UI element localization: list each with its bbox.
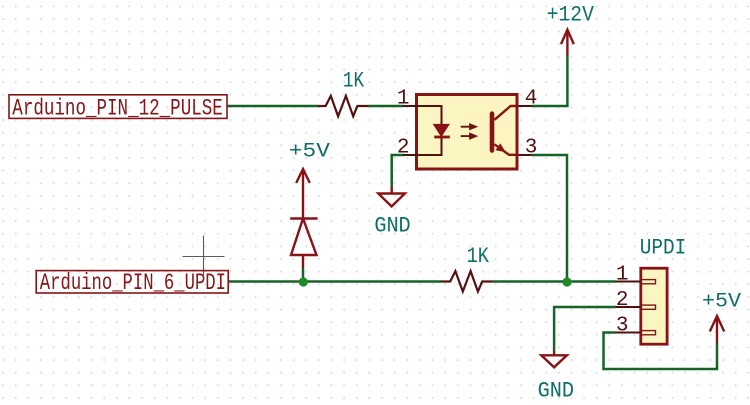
svg-text:3: 3 [616,315,629,338]
svg-text:Arduino_PIN_6_UPDI: Arduino_PIN_6_UPDI [40,270,226,296]
svg-text:+12V: +12V [547,3,595,28]
svg-text:UPDI: UPDI [640,236,687,261]
svg-text:3: 3 [525,137,538,160]
svg-text:1: 1 [616,264,629,287]
svg-text:+5V: +5V [702,290,741,313]
svg-text:1K: 1K [467,244,490,269]
svg-text:GND: GND [374,214,410,239]
svg-text:2: 2 [397,137,410,160]
svg-text:4: 4 [525,88,538,111]
svg-text:1K: 1K [343,69,365,94]
svg-text:1: 1 [397,88,410,111]
svg-text:2: 2 [616,289,629,312]
svg-text:Arduino_PIN_12_PULSE: Arduino_PIN_12_PULSE [12,96,223,122]
svg-text:GND: GND [538,379,574,404]
svg-text:+5V: +5V [289,141,330,164]
